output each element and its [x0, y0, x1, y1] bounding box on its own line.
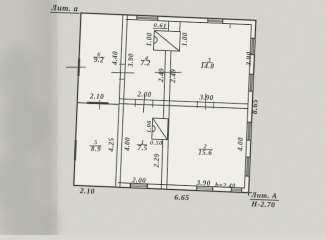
svg-text:15.6: 15.6 — [198, 148, 212, 157]
left wall thick segment (window room 5) — [74, 140, 77, 160]
vertical dims — [107, 29, 263, 173]
top wall window 2 — [208, 19, 223, 23]
bottom wall window near corner — [231, 188, 242, 192]
svg-text:2.10: 2.10 — [89, 92, 104, 101]
svg-text:1.00: 1.00 — [145, 32, 154, 46]
building interior paper — [74, 13, 256, 193]
right wall window b — [249, 74, 253, 91]
svg-text:Н-2.70: Н-2.70 — [250, 199, 275, 209]
svg-text:2.00: 2.00 — [131, 176, 146, 185]
stove 2 (between rooms 1 and 2) — [152, 118, 168, 140]
svg-text:4.25: 4.25 — [107, 137, 116, 152]
dimension ticks — [64, 17, 230, 115]
svg-text:9.2: 9.2 — [94, 56, 104, 64]
svg-text:7.5: 7.5 — [137, 144, 147, 152]
svg-text:8.9: 8.9 — [91, 145, 101, 153]
svg-text:3.90: 3.90 — [127, 53, 136, 68]
inner wall line of main part — [118, 19, 251, 188]
partition P1 rooms 6/4 and 5/1 — [116, 15, 123, 187]
grain over left band — [0, 0, 57, 235]
top wall window 1 — [137, 16, 158, 20]
svg-text:2.00: 2.00 — [136, 91, 151, 100]
svg-text:2.49: 2.49 — [157, 68, 166, 83]
windows: wall bars with glazing lines — [74, 13, 256, 193]
svg-text:1.06: 1.06 — [145, 120, 153, 133]
stove 1 (between rooms 4 and 3) — [154, 31, 181, 52]
partition P2 thick wall rooms 4/3 and 1/2 — [160, 51, 167, 189]
bottom wall window (room 2) — [197, 186, 213, 190]
chimney above stove 1 — [167, 21, 169, 31]
svg-text:4.00: 4.00 — [237, 137, 246, 152]
svg-text:2.29: 2.29 — [152, 153, 161, 168]
corner overshoot scan artifacts — [245, 191, 253, 194]
svg-text:3.90: 3.90 — [195, 179, 210, 188]
svg-text:3.90: 3.90 — [198, 94, 213, 103]
svg-text:Лит. а: Лит. а — [50, 3, 78, 13]
svg-text:0.50: 0.50 — [150, 140, 163, 148]
right wall window a — [251, 38, 255, 55]
wall stub in room 1 — [143, 94, 144, 113]
svg-text:8.65: 8.65 — [250, 99, 260, 114]
left scanner band — [0, 0, 62, 235]
svg-text:4.40: 4.40 — [111, 51, 120, 66]
svg-text:2.10: 2.10 — [79, 186, 95, 196]
svg-text:h=2.40: h=2.40 — [215, 182, 236, 190]
svg-text:4.00: 4.00 — [123, 137, 132, 152]
middle wall — [77, 103, 119, 105]
entrance window below room 1 — [130, 184, 147, 189]
svg-text:7.2: 7.2 — [140, 59, 150, 67]
right wall window c (hatch-white-hatch) — [247, 122, 251, 140]
svg-text:6.65: 6.65 — [174, 192, 189, 202]
svg-text:1.00: 1.00 — [181, 32, 190, 46]
svg-text:3.90: 3.90 — [245, 51, 254, 66]
svg-text:14.8: 14.8 — [200, 62, 214, 71]
outer wall Lit.A/a outline — [74, 13, 256, 193]
svg-text:2.49: 2.49 — [169, 69, 178, 84]
